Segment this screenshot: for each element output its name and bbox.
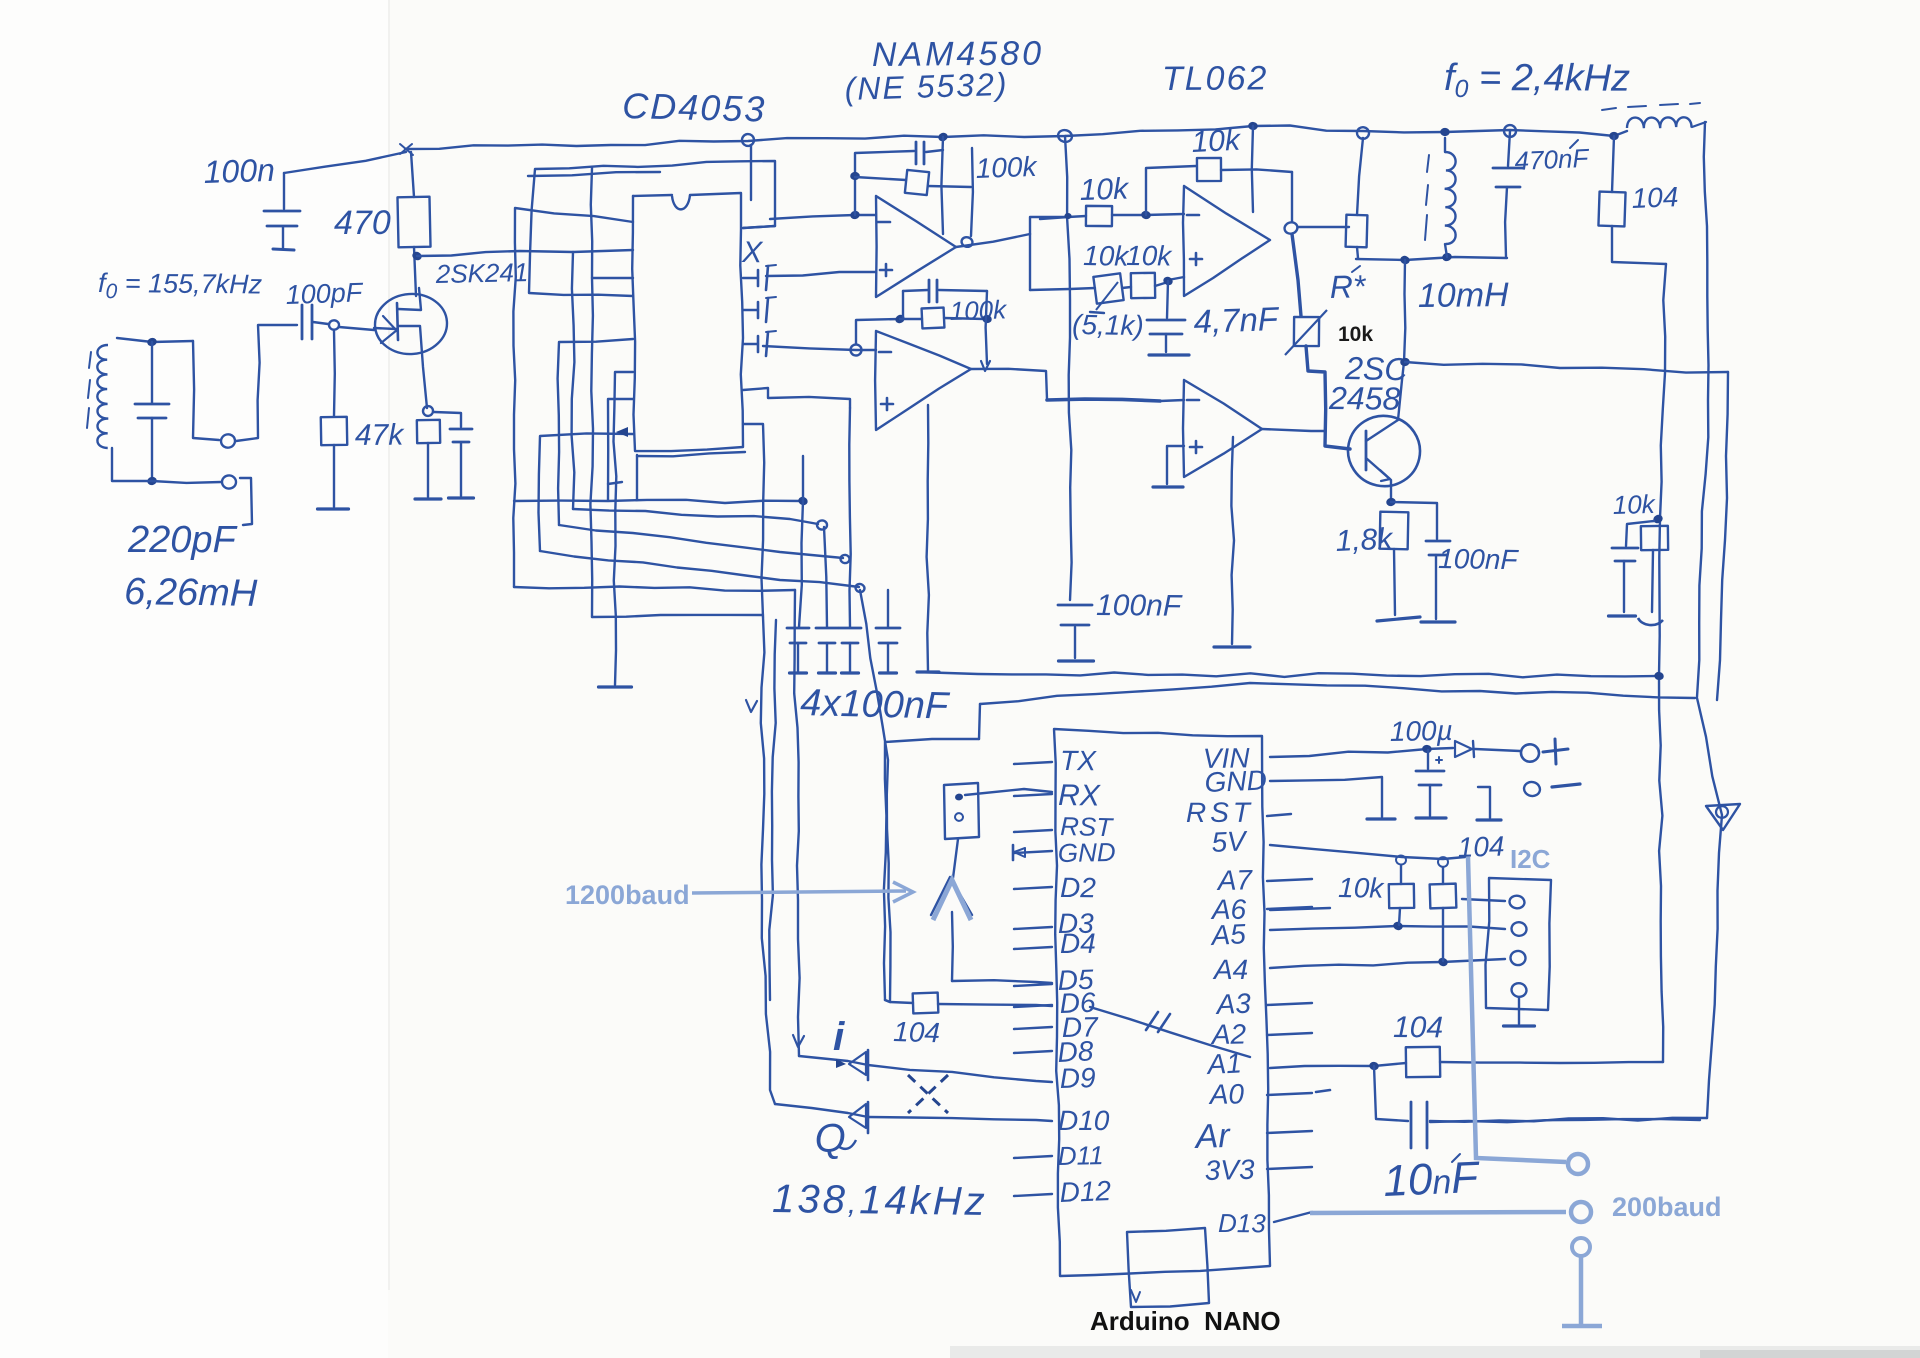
label 10k R15 xyxy=(1338,872,1386,904)
light wire 200baud xyxy=(1310,1212,1566,1213)
C6 lead to ground xyxy=(826,643,828,672)
svg-text:104: 104 xyxy=(1457,830,1505,863)
V928 ground bar xyxy=(917,670,939,673)
wire V928 from U2B area xyxy=(927,405,929,671)
resistor R4 100k (U2A fb) xyxy=(855,170,971,195)
capacitor C10 (U2B fb) xyxy=(903,280,987,317)
wire top supply bus xyxy=(405,126,1627,150)
wire bus branch down xyxy=(941,137,943,234)
antenna coil L1 xyxy=(97,345,108,448)
node B (tank bottom) xyxy=(146,476,157,486)
ground C4 xyxy=(449,496,474,499)
twisted pair cross dashed xyxy=(908,1075,948,1113)
C7 ground bar xyxy=(842,671,859,674)
label pin GND xyxy=(1058,837,1116,868)
U1 bottom double line xyxy=(637,452,745,456)
wire H372 corner down xyxy=(1717,372,1728,700)
diode D3 (supply) xyxy=(1455,741,1520,757)
svg-text:6,26mH: 6,26mH xyxy=(124,571,258,615)
label f0=155,7kHz xyxy=(98,268,263,304)
inductor L2 10mH xyxy=(1445,138,1456,257)
J2 pin1 xyxy=(1509,895,1526,910)
ground J2 xyxy=(1504,1024,1535,1027)
wire emitter to C13 xyxy=(1391,502,1437,539)
wire p2 route to cap2 xyxy=(573,509,818,524)
terminal circle top xyxy=(220,433,237,449)
Q2 base bar xyxy=(1365,431,1368,470)
wire p5 route to cap3 xyxy=(559,525,843,558)
label 2SC xyxy=(1344,350,1409,387)
dashes above L3 xyxy=(1602,103,1700,110)
svg-text:A2: A2 xyxy=(1210,1018,1247,1050)
junction on bus at 10mH xyxy=(1440,128,1450,137)
svg-text:100µ: 100µ xyxy=(1390,715,1453,747)
label 47k xyxy=(355,419,406,452)
label 100n xyxy=(203,152,275,190)
svg-text:5V: 5V xyxy=(1211,825,1249,858)
U1 pin wire down (to D10 net) xyxy=(743,424,764,617)
capacitor C7 100nF (decoupling) xyxy=(839,628,861,643)
node A1 xyxy=(1368,1061,1379,1071)
node cap1 net xyxy=(797,495,809,506)
label pin D5 xyxy=(1057,964,1094,996)
pin stub RST xyxy=(1014,830,1052,832)
arrow on p8 route xyxy=(616,427,628,437)
wire long net to cap1 xyxy=(514,500,803,503)
svg-text:X: X xyxy=(741,236,764,269)
pin stub A7 xyxy=(1267,879,1312,881)
node 100u xyxy=(1422,744,1433,753)
svg-text:GND: GND xyxy=(1204,764,1267,798)
label pin RST xyxy=(1060,811,1115,842)
capacitor C13 100nF xyxy=(1426,541,1450,555)
junction on bus right of TL062 xyxy=(1248,121,1258,130)
Q1 gate lead arrow xyxy=(374,316,397,343)
node V1068 crossing xyxy=(1064,213,1072,220)
label Arduino NANO xyxy=(1090,1306,1281,1336)
label pin D3 xyxy=(1058,908,1094,939)
wire node line under 10mH xyxy=(1356,257,1507,260)
label 2SK241 xyxy=(434,257,528,289)
svg-text:f0 = 2,4kHz: f0 = 2,4kHz xyxy=(1444,57,1630,104)
wire node B to terminal xyxy=(152,481,221,483)
wire H372 right xyxy=(1405,362,1728,373)
label 200baud xyxy=(1612,1192,1722,1222)
wire U3A feedback xyxy=(1146,166,1196,215)
svg-text:100n: 100n xyxy=(203,152,275,190)
arrow on D9 net xyxy=(793,1035,804,1047)
wire 104 box net xyxy=(885,1000,913,1003)
wire U2A out xyxy=(956,234,1030,247)
svg-text:Ar: Ar xyxy=(1193,1117,1232,1156)
U1 switch contact pin 1 xyxy=(743,265,776,290)
U3A plus xyxy=(1190,253,1202,265)
resistor R8 (5,1k) xyxy=(1090,273,1124,313)
wire U1 p8 route xyxy=(539,433,634,551)
pin stub RST2 xyxy=(1267,814,1291,816)
wire C14 down xyxy=(1505,187,1507,257)
Q2 collector xyxy=(1366,362,1404,441)
pin stub A0 xyxy=(1267,1093,1312,1095)
wire D10 net xyxy=(761,617,775,1104)
label CD4053 xyxy=(622,85,767,130)
node A (tank top) xyxy=(146,337,158,348)
bus slash wire D6-A1 xyxy=(1090,1007,1250,1057)
label pin 5V xyxy=(1211,825,1249,858)
label 100pF xyxy=(285,277,364,310)
wire node down to tuning cap xyxy=(151,342,153,403)
wire U3A out thick down xyxy=(1292,234,1301,316)
resistor R12 1,8k xyxy=(1380,512,1409,550)
wire bus to 100nF vertical xyxy=(1065,136,1072,600)
pin stub A6 xyxy=(1267,907,1312,909)
Q2 emitter xyxy=(1366,458,1391,500)
light wire ground xyxy=(1562,1257,1602,1326)
label 4x100nF xyxy=(800,682,951,728)
hook cap2 xyxy=(817,520,827,529)
wire C1 to bottom node xyxy=(151,418,153,481)
light wire I2C cap down xyxy=(1468,857,1566,1162)
transistor Q1 2SK241 body xyxy=(373,292,449,357)
capacitor C18 10nF xyxy=(1411,1102,1427,1148)
resistor R15 10k xyxy=(1389,855,1414,908)
node U3A fb xyxy=(1140,210,1151,220)
label pin D13 xyxy=(1218,1208,1266,1238)
pin stub TX xyxy=(1014,762,1052,764)
wire U2A -in xyxy=(770,215,876,219)
label pin A1 xyxy=(1205,1047,1243,1080)
label pin TX xyxy=(1060,745,1097,776)
Q1 gate bar xyxy=(397,303,398,340)
label pin D6 xyxy=(1059,987,1096,1019)
node Q2 emitter xyxy=(1385,497,1396,507)
wire bus stub down TL062 xyxy=(1252,126,1253,212)
junction on bus at 470nF xyxy=(1504,125,1517,138)
svg-text:138,14kHz: 138,14kHz xyxy=(772,1177,988,1224)
svg-text:104: 104 xyxy=(893,1016,941,1048)
label pin VIN xyxy=(1203,742,1251,774)
J2 pin4 xyxy=(1510,982,1528,998)
tick on ground route xyxy=(608,482,622,484)
label pin A7 xyxy=(1215,864,1253,896)
bus slash marks xyxy=(1146,1012,1170,1032)
wire C3 bottom lead xyxy=(282,227,284,248)
label pin A3 xyxy=(1214,988,1252,1021)
terminal circle bottom xyxy=(222,475,237,489)
wire D10 net second strand xyxy=(769,620,776,1000)
label 104 C16 xyxy=(893,1016,941,1048)
wire trimmer to Q2 base thick xyxy=(1306,346,1350,449)
label 100k U2B xyxy=(949,294,1008,326)
resistor R7 10k (U3A fb) xyxy=(1197,158,1292,181)
op-amp U3A triangle xyxy=(1183,186,1270,296)
svg-text:100k: 100k xyxy=(975,151,1039,184)
svg-text:Arduino NANO: Arduino NANO xyxy=(1090,1306,1281,1336)
Q1 source lead xyxy=(398,326,427,408)
capacitor C16 104 xyxy=(913,993,939,1014)
capacitor C17 100u xyxy=(1416,750,1444,785)
dashed core line of L1 xyxy=(87,352,91,428)
svg-text:A7: A7 xyxy=(1215,864,1253,896)
node H372 xyxy=(1399,357,1410,367)
resistor R10 R* (on bus drop) xyxy=(1346,138,1368,258)
wire R12 to ground xyxy=(1394,549,1395,615)
label 100nF C13 xyxy=(1438,543,1520,575)
label 470 xyxy=(334,204,391,242)
node U2A -in xyxy=(850,210,861,220)
label R* xyxy=(1329,266,1367,305)
C12 bottom bar xyxy=(1149,353,1189,356)
capacitor C8 100nF (decoupling) xyxy=(876,628,900,643)
arrow 1200baud xyxy=(692,882,913,902)
label 1200baud xyxy=(565,880,690,910)
wire R16 to A4 xyxy=(1442,908,1444,961)
wire D13 net xyxy=(1274,1212,1312,1222)
label - xyxy=(1552,784,1580,787)
wire gate node to Q1 xyxy=(339,327,374,330)
wire U3B supply down xyxy=(1231,437,1234,644)
pin stub A2 xyxy=(1267,1033,1312,1035)
resistor R13 104 (top right) xyxy=(1598,136,1625,226)
U2B out arrowhead xyxy=(981,361,990,371)
wire U2A out corner xyxy=(1030,217,1068,234)
wire C12 down xyxy=(1165,334,1167,352)
wire U3A +in xyxy=(1168,277,1184,280)
label i xyxy=(833,1015,845,1059)
pin stub GND xyxy=(1014,851,1052,853)
wire +in to C12 xyxy=(1167,281,1168,318)
transistor Q2 2SC2458 body xyxy=(1341,409,1426,493)
wire C15 down xyxy=(1623,561,1625,612)
wire drain node to CD4053 net xyxy=(417,251,573,256)
label TL062 xyxy=(1162,59,1269,98)
svg-text:104: 104 xyxy=(1631,181,1679,214)
wire D9 net xyxy=(794,590,799,1056)
wire 10k cap branch xyxy=(1626,521,1654,546)
A0 tick xyxy=(1316,1090,1330,1092)
label 10k R8 xyxy=(1083,240,1131,272)
op-amp U2B triangle xyxy=(875,331,971,430)
wire C18 right xyxy=(1430,1119,1700,1122)
resistor R16 10k xyxy=(1430,856,1457,908)
resistor R6 10k (U3A in) xyxy=(1086,206,1184,226)
label Q xyxy=(814,1116,856,1161)
ground C17 xyxy=(1416,816,1446,819)
wire chip bottom stub xyxy=(636,455,638,500)
light antenna symbol xyxy=(933,880,971,920)
wire cap1 drop xyxy=(799,501,803,627)
J1 pin 2 xyxy=(954,812,964,821)
junction on bus at 104 branch xyxy=(1609,132,1619,141)
junction on bus at R* branch xyxy=(1356,126,1370,139)
C8 ground bar xyxy=(880,671,897,674)
label 104 R13 xyxy=(1631,181,1679,214)
svg-text:1,8k: 1,8k xyxy=(1335,522,1395,558)
resistor R9 10k xyxy=(1122,273,1168,298)
ground R3 xyxy=(415,497,441,500)
label pin D12 xyxy=(1059,1175,1112,1208)
terminal + circle xyxy=(1520,743,1540,763)
wire 470nF stub xyxy=(1508,131,1510,166)
svg-text:I2C: I2C xyxy=(1510,844,1551,874)
wire U1 p7 route xyxy=(608,399,633,500)
junction on bus at TL062 xyxy=(1057,129,1073,144)
wire terminal to coupling cap xyxy=(236,325,297,441)
wire collector up xyxy=(1404,260,1405,362)
svg-text:R*: R* xyxy=(1329,268,1367,305)
node H676 right xyxy=(1654,671,1665,681)
C3 bottom bar xyxy=(273,249,294,250)
arrow on D10 net xyxy=(746,700,757,712)
svg-text:470nF: 470nF xyxy=(1514,143,1591,176)
wire ground bus right xyxy=(917,672,1659,677)
wire D10 to pin xyxy=(775,1104,1052,1121)
wire A5 net xyxy=(1270,926,1505,930)
pin stub A3 xyxy=(1267,1003,1312,1005)
wire U2A +in xyxy=(766,272,876,276)
capacitor C5 100nF (decoupling) xyxy=(787,628,809,643)
wire R1 to Q1 drain xyxy=(414,247,416,296)
wire 5V net xyxy=(1270,845,1465,859)
wire p8 route to 104/D6 net xyxy=(540,551,859,587)
wire right loop down xyxy=(1697,698,1722,1118)
label pin A5 xyxy=(1209,918,1247,951)
U2A plus xyxy=(880,264,892,276)
wire A1 to C18 xyxy=(1374,1066,1408,1121)
wire U1 p4 outer loop xyxy=(529,161,775,296)
svg-text:100pF: 100pF xyxy=(285,277,364,310)
antenna down symbol xyxy=(1706,804,1740,830)
wire right net down xyxy=(1659,264,1666,1062)
resistor R17 104 (A1) xyxy=(1406,1047,1440,1077)
wire C3 top lead xyxy=(283,173,285,209)
C5 ground bar xyxy=(790,671,807,674)
J2 pin2 xyxy=(1510,921,1527,937)
wire U3B out xyxy=(1262,429,1324,431)
wire U3A out right xyxy=(1298,226,1349,228)
wire U2B+ down to cap3 xyxy=(849,408,850,627)
U2B minus xyxy=(879,351,891,354)
terminal - circle xyxy=(1523,781,1542,798)
wire J2 pin4 ground xyxy=(1518,998,1520,1024)
pin stub D6 xyxy=(1014,1005,1052,1007)
label pin D11 xyxy=(1057,1140,1103,1171)
capacitor C4 (source bypass) xyxy=(450,429,472,442)
label 104 I2C cap xyxy=(1457,830,1505,863)
pin stub D11 xyxy=(1014,1156,1052,1158)
wire p3 vertical xyxy=(590,168,593,617)
wire H697 xyxy=(979,683,1695,739)
wire L1 top to node xyxy=(117,338,193,342)
source node circle xyxy=(423,406,433,416)
pin stub RX xyxy=(1014,794,1052,796)
resistor R2 47k (gate) xyxy=(321,331,347,445)
wire U2B -in xyxy=(763,346,876,350)
node drain xyxy=(411,250,423,262)
svg-text:100k: 100k xyxy=(949,294,1008,326)
wire R17 right xyxy=(1440,1062,1663,1063)
svg-text:10k: 10k xyxy=(1338,323,1373,346)
wire U2B feedback left xyxy=(856,319,900,344)
node A5-R15 xyxy=(1392,920,1404,931)
svg-text:10k: 10k xyxy=(1083,240,1131,272)
wire R2 to ground xyxy=(333,445,335,507)
pin stub D7 xyxy=(1014,1027,1052,1029)
svg-text:10k: 10k xyxy=(1338,872,1386,904)
node 10mH left xyxy=(1399,254,1411,265)
label pin 3V3 xyxy=(1204,1154,1255,1186)
wire cap4 stub up xyxy=(887,590,889,627)
U1 switch contact pin 2 xyxy=(743,297,776,322)
wire antenna to D5 net xyxy=(951,912,954,981)
U1 pin wire to op-amp U2B + xyxy=(743,388,850,408)
wire U2A feedback left xyxy=(855,151,914,215)
U3B supply ground xyxy=(1214,645,1250,648)
wire C2 to gate node xyxy=(313,322,328,324)
ground C13 xyxy=(1421,620,1455,623)
svg-text:A5: A5 xyxy=(1209,918,1247,951)
connector J2 I2C xyxy=(1486,878,1552,1010)
label 100nF C11 xyxy=(1096,589,1183,623)
hook cap3 xyxy=(840,554,850,563)
label pin D8 xyxy=(1057,1035,1095,1068)
wire U2B out xyxy=(971,369,1047,399)
wire fb right vertical xyxy=(1291,172,1293,221)
wire U1 p6 ground route xyxy=(614,372,634,685)
label 104 R17 xyxy=(1393,1011,1443,1044)
label 100k U2A xyxy=(975,151,1039,184)
capacitor C6 100nF (decoupling) xyxy=(816,628,838,643)
wire loop to RX box xyxy=(884,739,979,1002)
terminal circle baud2 xyxy=(1571,1202,1591,1222)
svg-text:200baud: 200baud xyxy=(1612,1192,1722,1222)
label + xyxy=(1543,739,1568,764)
node U3A +in xyxy=(1162,275,1174,286)
wire out stub down xyxy=(1029,234,1031,290)
wire cap2 drop xyxy=(824,527,827,627)
wire U2B out thick xyxy=(1047,399,1184,401)
label 10k R14 xyxy=(1612,489,1657,520)
label 138,14kHz xyxy=(772,1177,988,1224)
wire J1 to RX xyxy=(965,789,1052,795)
wire U1 p2 route xyxy=(572,250,633,509)
wire U1 p5 route xyxy=(558,339,633,525)
antenna symbol xyxy=(931,877,972,915)
node A4-R16 xyxy=(1437,956,1449,967)
wire R3 to ground xyxy=(427,443,429,497)
U1 VDD pin wire from bus xyxy=(750,145,752,200)
wire 5,1k net xyxy=(1030,288,1095,290)
wire U3A -in xyxy=(1040,216,1086,219)
label pin D2 xyxy=(1060,872,1096,903)
label 1,8k xyxy=(1335,522,1395,558)
gate node circle xyxy=(329,320,339,330)
terminal circle baud3 xyxy=(1572,1238,1590,1256)
label 220pF xyxy=(127,519,238,561)
wire U3B +in stub xyxy=(1167,446,1184,484)
pin stub D8 xyxy=(1014,1051,1052,1053)
wire coil end down xyxy=(1697,122,1709,697)
svg-text:10k: 10k xyxy=(1191,124,1243,159)
svg-text:D12: D12 xyxy=(1059,1175,1112,1208)
wire p3 route bottom to D10 net xyxy=(592,615,763,617)
svg-text:10k: 10k xyxy=(1079,172,1130,207)
pin stub D4 xyxy=(1014,947,1052,949)
svg-text:D13: D13 xyxy=(1218,1208,1266,1238)
node U2B fb xyxy=(894,313,906,325)
capacitor C11 100nF xyxy=(1058,605,1092,625)
U3A minus xyxy=(1187,214,1199,217)
